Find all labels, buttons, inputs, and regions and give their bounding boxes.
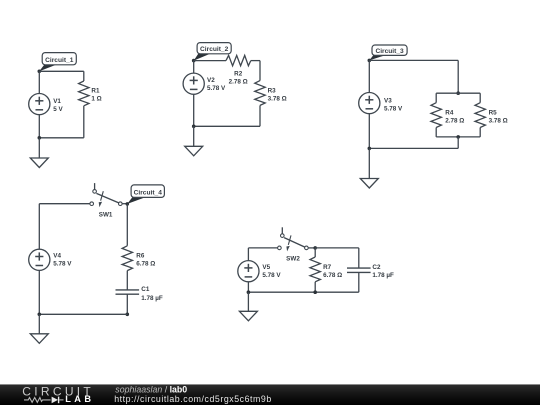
label C1 value xyxy=(141,286,163,302)
label R5 value xyxy=(489,109,508,124)
svg-text:Circuit_4: Circuit_4 xyxy=(134,189,163,196)
svg-text:5.78 V: 5.78 V xyxy=(53,260,72,267)
svg-text:Circuit_3: Circuit_3 xyxy=(375,48,404,55)
svg-text:R5: R5 xyxy=(489,109,498,116)
junction C4 ground xyxy=(38,313,42,317)
svg-text:R6: R6 xyxy=(136,252,145,259)
voltage source V3 xyxy=(359,93,380,114)
wire V2 bottom lead xyxy=(193,94,195,126)
node label Circuit_1 xyxy=(39,53,76,72)
wire V1 top lead xyxy=(38,71,40,93)
resistor R3 xyxy=(255,81,265,127)
svg-text:5.78 V: 5.78 V xyxy=(384,105,403,112)
wire to ground C2 xyxy=(193,126,195,146)
ground GND3 xyxy=(360,179,378,189)
label SW1 xyxy=(99,211,113,218)
ground GND5 xyxy=(239,311,257,321)
label R7 value xyxy=(323,264,342,279)
svg-text:SW1: SW1 xyxy=(99,211,113,218)
svg-text:C2: C2 xyxy=(372,264,381,271)
label V1 value xyxy=(53,98,63,113)
label R4 value xyxy=(445,109,464,124)
capacitor C2 xyxy=(347,248,371,292)
svg-text:V3: V3 xyxy=(384,97,392,104)
voltage source V5 xyxy=(238,261,259,282)
wire bottom C1 xyxy=(39,137,84,139)
capacitor C1 xyxy=(116,271,140,315)
label C2 value xyxy=(372,264,394,279)
switch SW1 xyxy=(90,183,122,207)
svg-text:V4: V4 xyxy=(53,252,61,259)
wire par top bar xyxy=(436,92,480,94)
svg-text:5.78 V: 5.78 V xyxy=(207,85,226,92)
wire V3 top lead xyxy=(368,60,370,92)
label V4 value xyxy=(53,252,72,267)
ground GND2 xyxy=(185,146,203,156)
svg-text:R7: R7 xyxy=(323,264,332,271)
junction C5 top R7 xyxy=(313,246,317,250)
svg-text:1.78 µF: 1.78 µF xyxy=(141,295,163,302)
svg-text:V5: V5 xyxy=(262,264,270,271)
wire bottom C5 xyxy=(248,291,358,293)
svg-text:1.78 µF: 1.78 µF xyxy=(372,272,394,279)
svg-text:C1: C1 xyxy=(141,286,150,293)
node Circuit_1 anchor xyxy=(38,70,42,74)
svg-text:http://circuitlab.com/cd5rgx5c: http://circuitlab.com/cd5rgx5c6tm9b xyxy=(114,394,272,404)
resistor R1 xyxy=(79,71,89,138)
junction C3 top xyxy=(456,91,460,95)
resistor R6 xyxy=(122,246,132,271)
resistor R7 xyxy=(310,248,320,292)
wire V4 bottom lead xyxy=(38,270,40,314)
label V5 value xyxy=(262,264,281,279)
svg-text:2.78 Ω: 2.78 Ω xyxy=(445,117,464,124)
label V2 value xyxy=(207,77,226,92)
switch SW2 xyxy=(278,227,309,251)
wire SW1 to node xyxy=(122,203,127,205)
svg-text:SW2: SW2 xyxy=(286,255,300,262)
svg-text:R1: R1 xyxy=(91,88,100,95)
svg-text:LAB: LAB xyxy=(65,394,94,404)
label R6 value xyxy=(136,252,155,267)
junction C1 cap bottom xyxy=(126,313,130,317)
junction C5 ground xyxy=(247,290,251,294)
wire to ground C1 xyxy=(38,138,40,158)
label R2 value xyxy=(229,71,248,86)
junction C1 ground xyxy=(38,136,42,140)
resistor R4 xyxy=(431,96,441,137)
svg-text:1 Ω: 1 Ω xyxy=(91,96,101,103)
label SW2 xyxy=(286,255,300,262)
wire R5 top stub xyxy=(479,93,481,96)
voltage source V1 xyxy=(29,94,50,115)
wire par bottom down xyxy=(457,137,459,149)
wire top C3 down xyxy=(457,60,459,93)
wire top C5 right xyxy=(315,247,359,249)
voltage source V2 xyxy=(183,73,204,94)
wire bottom C4 xyxy=(39,313,127,315)
wire V3 bottom lead xyxy=(368,114,370,149)
svg-text:Circuit_2: Circuit_2 xyxy=(200,46,229,53)
svg-text:6.78 Ω: 6.78 Ω xyxy=(323,272,342,279)
junction C3 ground xyxy=(368,147,372,151)
label V3 value xyxy=(384,97,403,112)
ground GND1 xyxy=(30,158,48,168)
wire R6 column top xyxy=(126,204,128,246)
svg-text:R4: R4 xyxy=(445,109,454,116)
wire to ground C4 xyxy=(38,314,40,334)
junction C3 bottom xyxy=(456,135,460,139)
svg-text:3.78 Ω: 3.78 Ω xyxy=(489,117,508,124)
wire right C2 down xyxy=(259,61,261,81)
wire top C4 xyxy=(39,203,90,205)
wire SW2 to R7 xyxy=(308,247,315,249)
svg-text:R2: R2 xyxy=(234,71,243,78)
wire to ground C5 xyxy=(247,292,249,311)
svg-text:5.78 V: 5.78 V xyxy=(262,272,281,279)
junction C2 ground xyxy=(192,125,196,129)
wire top C3 xyxy=(369,59,458,61)
wire V5 top lead xyxy=(247,248,249,261)
svg-text:5 V: 5 V xyxy=(53,106,63,113)
svg-text:6.78 Ω: 6.78 Ω xyxy=(136,260,155,267)
node label Circuit_3 xyxy=(369,45,407,60)
svg-text:Circuit_1: Circuit_1 xyxy=(45,57,74,64)
wire V5 bottom lead xyxy=(247,282,249,292)
svg-text:3.78 Ω: 3.78 Ω xyxy=(268,96,287,103)
svg-text:V2: V2 xyxy=(207,77,215,84)
footer bar xyxy=(0,384,540,405)
label R1 value xyxy=(91,88,101,103)
wire bottom C3 xyxy=(369,147,458,149)
ground GND4 xyxy=(30,334,48,344)
svg-text:V1: V1 xyxy=(53,98,61,105)
resistor R2 xyxy=(194,55,260,65)
svg-text:2.78 Ω: 2.78 Ω xyxy=(229,79,248,86)
node Circuit_2 anchor xyxy=(192,59,196,63)
CircuitLab logo xyxy=(22,384,94,404)
wire top C5 xyxy=(248,247,277,249)
wire par bottom bar xyxy=(436,136,480,138)
footer credit text xyxy=(114,385,272,404)
wire top C1 xyxy=(39,70,84,72)
node label Circuit_4 xyxy=(127,185,164,204)
node Circuit_4 anchor xyxy=(126,202,130,206)
wire R4 top stub xyxy=(435,93,437,96)
resistor R5 xyxy=(475,96,485,137)
svg-text:R3: R3 xyxy=(268,88,277,95)
wire bottom C2 xyxy=(194,125,260,127)
wire V2 top lead xyxy=(193,61,195,74)
node label Circuit_2 xyxy=(194,43,232,61)
voltage source V4 xyxy=(29,249,50,270)
node Circuit_3 anchor xyxy=(368,59,372,63)
wire V4 top lead xyxy=(38,204,40,249)
wire V1 bottom lead xyxy=(38,115,40,138)
junction C5 bottom R7 xyxy=(313,290,317,294)
wire to ground C3 xyxy=(368,148,370,178)
label R3 value xyxy=(268,88,287,103)
